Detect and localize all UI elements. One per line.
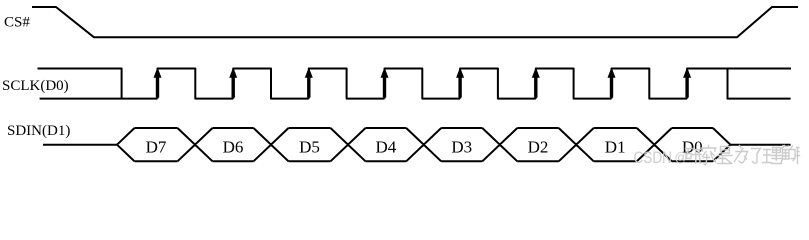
SCLK rising-edge arrow 6 bbox=[534, 76, 537, 98]
svg-text:D5: D5 bbox=[299, 137, 320, 156]
watermark glyph 5 bbox=[752, 149, 761, 164]
SDIN lead-in wire bbox=[43, 144, 117, 146]
watermark glyph 2 bbox=[702, 146, 717, 165]
SCLK rising-edge arrow 5 bbox=[458, 76, 461, 98]
svg-text:SDIN(D1): SDIN(D1) bbox=[7, 123, 70, 139]
SCLK rising-edge arrow 3 bbox=[307, 76, 310, 98]
SCLK rising-edge arrow 7 bbox=[610, 76, 613, 98]
svg-text:D1: D1 bbox=[605, 137, 626, 156]
SDIN data-bus envelope bbox=[117, 128, 730, 161]
svg-text:D6: D6 bbox=[223, 137, 244, 156]
svg-text:CS#: CS# bbox=[4, 14, 30, 30]
svg-text:D4: D4 bbox=[376, 137, 397, 156]
CS# waveform bbox=[32, 7, 798, 37]
watermark glyph 3 bbox=[718, 147, 733, 164]
svg-text:D2: D2 bbox=[528, 137, 549, 156]
svg-text:D7: D7 bbox=[146, 137, 167, 156]
watermark glyph 4 bbox=[735, 146, 748, 163]
SCLK rising-edge arrow 2 bbox=[231, 76, 234, 98]
watermark glyph 1 bbox=[686, 149, 702, 164]
SCLK rising-edge arrow 8 bbox=[685, 76, 688, 98]
SCLK waveform bbox=[38, 69, 792, 99]
SCLK rising-edge arrow 1 bbox=[156, 76, 159, 98]
SCLK rising-edge arrow 4 bbox=[383, 76, 386, 98]
svg-text:CSDN: CSDN bbox=[634, 149, 673, 167]
svg-text:SCLK(D0): SCLK(D0) bbox=[2, 78, 69, 94]
watermark glyph 7 bbox=[781, 146, 800, 164]
svg-text:D3: D3 bbox=[451, 137, 472, 156]
watermark glyph 6 bbox=[763, 148, 782, 164]
SDIN lead-out wire bbox=[730, 144, 790, 146]
